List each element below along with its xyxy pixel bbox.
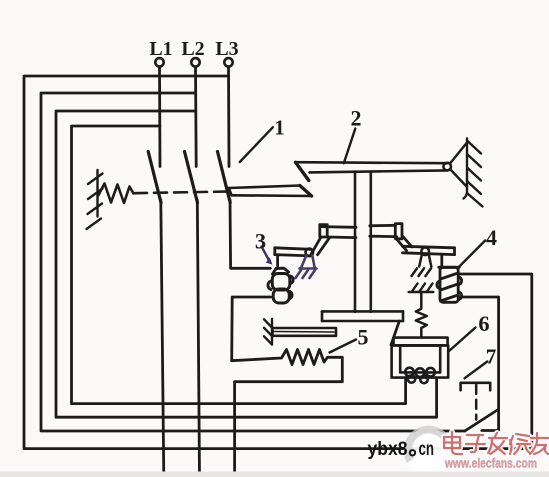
trip member foot bar	[322, 311, 403, 321]
contact spring zigzag	[99, 184, 134, 204]
latch 3 pivot	[306, 249, 314, 257]
coil 3 overcurrent release	[268, 268, 293, 303]
contact blade phase 1	[148, 152, 161, 203]
wire L1 input drop	[158, 67, 161, 167]
latch 4 pivot mount	[412, 255, 432, 276]
terminal circle L1	[155, 58, 163, 66]
button 7 dashed stem	[475, 385, 478, 420]
wire coil3 bottom lead	[232, 297, 271, 361]
svg-text:ybx8: ybx8	[368, 438, 408, 460]
svg-text:5: 5	[358, 325, 369, 350]
lever 2 lower link bar	[229, 186, 312, 197]
svg-text:4: 4	[486, 225, 497, 250]
wire fourth loop (coil6 left lead to L1)	[72, 126, 406, 404]
label 1 leader	[240, 127, 273, 162]
label 3 leader with arrow	[262, 247, 269, 261]
label 2 leader	[344, 129, 356, 164]
terminal circle L3	[224, 58, 232, 66]
watermark logo swoosh	[404, 426, 452, 476]
crossbar left arm	[311, 225, 356, 255]
svg-text:7: 7	[486, 345, 497, 369]
友	[530, 433, 548, 454]
latch 3 pivot mount (blue tinted)	[296, 256, 317, 278]
wire coil4 bottom lead to button contact	[459, 297, 499, 431]
svg-text:cn: cn	[419, 438, 435, 460]
label 4 leader	[459, 241, 485, 267]
wire L3 input drop	[227, 67, 230, 167]
电	[444, 432, 462, 454]
友	[530, 433, 548, 454]
lever 2 pivot	[443, 163, 451, 171]
latch 3 armature bar	[275, 248, 311, 266]
svg-text:3: 3	[255, 229, 266, 254]
bimetal strip	[273, 328, 337, 336]
wire third loop (coil6 right lead to L2)	[56, 111, 437, 417]
label 5 leader	[330, 340, 357, 353]
svg-text:L2: L2	[181, 38, 204, 60]
烧	[510, 434, 530, 454]
svg-text:L3: L3	[215, 38, 238, 60]
crossbar right arm	[370, 224, 412, 251]
svg-text:6: 6	[478, 311, 489, 336]
link foot to armature 6	[391, 321, 399, 345]
wire L2 input drop	[194, 67, 197, 167]
wire phase3 drop to coil3	[230, 200, 270, 268]
svg-text:1: 1	[274, 116, 285, 140]
latch 4 return spring anchor	[409, 284, 434, 293]
latch 4 return spring	[416, 292, 427, 338]
子	[466, 435, 485, 452]
发	[488, 433, 507, 454]
svg-text:www.elecfans.com: www.elecfans.com	[444, 457, 537, 471]
undervoltage release 6 box	[392, 338, 449, 384]
label 6 leader	[449, 328, 476, 352]
wire phase2 output	[197, 200, 199, 477]
label 7 leader	[465, 362, 488, 379]
wire second loop (button circuit to L2)	[41, 93, 465, 431]
contact spring anchor wall	[87, 170, 103, 229]
wire outer loop (coil4 top to L3 via left nest)	[24, 76, 532, 449]
bottom scan edge band	[0, 472, 549, 477]
watermark red CJK 电子发烧友 (drawn strokes)	[444, 432, 548, 454]
latch 4 pivot	[421, 248, 429, 256]
发	[488, 433, 507, 454]
lever 2 pivot mount triangle and wall	[450, 139, 483, 207]
烧	[510, 434, 530, 454]
电	[444, 432, 462, 454]
svg-text:2: 2	[351, 106, 362, 131]
terminal circle L2	[191, 58, 199, 66]
子	[466, 435, 485, 452]
central trip member vertical	[355, 172, 371, 312]
button 7 actuator cap	[461, 383, 491, 391]
bimetal anchor wall	[264, 319, 272, 345]
contact blade phase 3	[218, 152, 231, 203]
coil 4 shunt release	[437, 267, 462, 302]
lever 2 upper bar	[296, 162, 448, 180]
mechanical linkage dashed bar	[134, 192, 228, 194]
latch 4 armature bar	[403, 246, 455, 266]
button 7 blade	[465, 410, 498, 432]
svg-text:L1: L1	[149, 38, 172, 60]
heater element 5 (zigzag)	[232, 350, 343, 477]
contact blade phase 2	[185, 152, 198, 203]
wire phase1 output	[161, 200, 164, 477]
